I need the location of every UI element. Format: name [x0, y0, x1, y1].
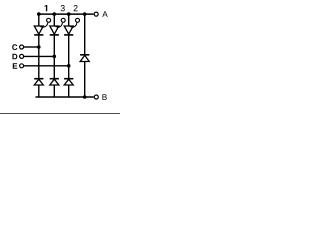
node dot E junction [67, 64, 71, 68]
node dot bottom bus / column 4 [83, 95, 87, 99]
terminal C circle [20, 45, 24, 49]
bottom border rule [0, 113, 120, 115]
wire: column 1 vertical [38, 14, 40, 97]
wire: column 3 vertical [68, 14, 70, 97]
wire: bottom cathode bus to terminal B [36, 96, 94, 98]
wire: column 2 vertical [53, 14, 55, 97]
background [0, 0, 120, 114]
thyristor 2 gate lead [55, 23, 62, 27]
diode 4 triangle [80, 55, 89, 61]
diode 1 cathode bar (lower arm, column 1) [34, 78, 43, 80]
diode 2 cathode bar (lower arm, column 2) [50, 78, 59, 80]
thyristor 1 gate lead [40, 23, 48, 27]
label 3 (gate terminal number, thyristor 2) [61, 5, 65, 11]
node dot D junction [53, 55, 57, 59]
terminal A circle [94, 12, 98, 16]
thyristor 2 triangle [50, 26, 59, 34]
label 1 (gate terminal number, thyristor 1) [45, 5, 48, 11]
thyristor 2 cathode bar [50, 34, 59, 36]
wire: C to column 1 [24, 46, 39, 48]
node dot top bus / column 3 [67, 12, 71, 16]
diode 4 cathode bar (free-wheel diode, column 4) [80, 54, 89, 56]
thyristor 3 cathode bar [64, 34, 73, 36]
label 2 (gate terminal number, thyristor 3) [74, 5, 78, 11]
wire: E to column 3 [24, 65, 69, 67]
label B [102, 94, 106, 100]
wire: D to column 2 [24, 55, 55, 57]
node dot top bus / column 1 [37, 12, 41, 16]
node dot C junction [37, 45, 41, 49]
thyristor 3 gate lead [70, 23, 77, 27]
thyristor 2 gate terminal circle [61, 18, 65, 22]
node dot top bus / column 2 [53, 12, 57, 16]
diode 1 triangle [34, 79, 43, 85]
label E [13, 63, 17, 68]
wire: column 4 vertical (free-wheel diode leg) [84, 14, 86, 97]
wire: top anode bus to terminal A [39, 13, 94, 15]
node dot top bus / column 4 [83, 12, 87, 16]
label A [102, 11, 107, 17]
diode 3 triangle [64, 79, 73, 85]
label D [12, 54, 17, 60]
thyristor 1 cathode bar [34, 34, 43, 36]
thyristor 1 gate terminal circle [47, 18, 51, 22]
diode 2 triangle [50, 79, 59, 85]
label C [12, 44, 17, 50]
diode 3 cathode bar (lower arm, column 3) [64, 78, 73, 80]
terminal D circle [20, 54, 24, 58]
thyristor 3 gate terminal circle [76, 18, 80, 22]
terminal B circle [94, 95, 98, 99]
terminal E circle [20, 64, 24, 68]
thyristor 1 triangle [34, 26, 43, 34]
thyristor 3 triangle [64, 26, 73, 34]
